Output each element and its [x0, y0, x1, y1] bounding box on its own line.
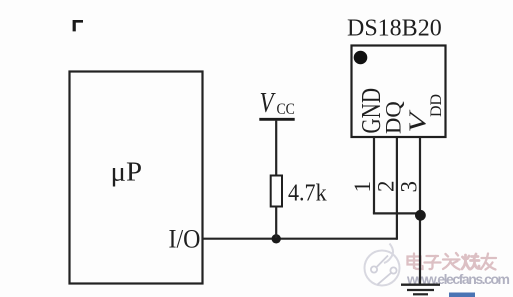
- gamma mark top-left: [73, 20, 83, 31]
- node junction dot at resistor: [272, 234, 281, 243]
- watermark 电子发烧友 white emboss layer: [409, 254, 498, 271]
- svg-text:DQ: DQ: [381, 101, 406, 134]
- svg-text:3: 3: [397, 181, 422, 193]
- svg-text:DD: DD: [428, 94, 445, 117]
- wire pin2 vertical: [396, 137, 398, 240]
- svg-text:μP: μP: [111, 157, 143, 187]
- wire pin3 vertical: [419, 137, 421, 285]
- wire pin1 to pin3 tie: [373, 212, 421, 214]
- svg-text:2: 2: [374, 181, 399, 193]
- svg-text:I/O: I/O: [169, 225, 201, 253]
- Vcc power bar: [259, 118, 294, 121]
- ground symbol: [401, 284, 440, 286]
- wire pin1 vertical: [373, 137, 375, 214]
- svg-text:CC: CC: [277, 101, 295, 118]
- resistor R 4.7k body: [271, 176, 282, 207]
- watermark logo circle: [365, 244, 400, 286]
- wire DQ horizontal I/O to pin2: [203, 238, 397, 240]
- pin label VDD: [405, 94, 445, 133]
- watermark 电子发烧友 rose layer: [408, 253, 497, 270]
- chip pin1 indicator dot: [354, 51, 368, 65]
- svg-text:1: 1: [350, 181, 375, 193]
- wire resistor to DQ line: [275, 207, 277, 239]
- svg-text:4.7k: 4.7k: [288, 179, 327, 206]
- DS18B20 chip box U1: [352, 46, 446, 138]
- blue rectangle bottom: [449, 293, 475, 297]
- node junction dot pin3: [415, 210, 426, 221]
- microprocessor box: [70, 72, 203, 284]
- svg-text:DS18B20: DS18B20: [347, 16, 442, 42]
- wire Vcc to resistor: [275, 121, 277, 176]
